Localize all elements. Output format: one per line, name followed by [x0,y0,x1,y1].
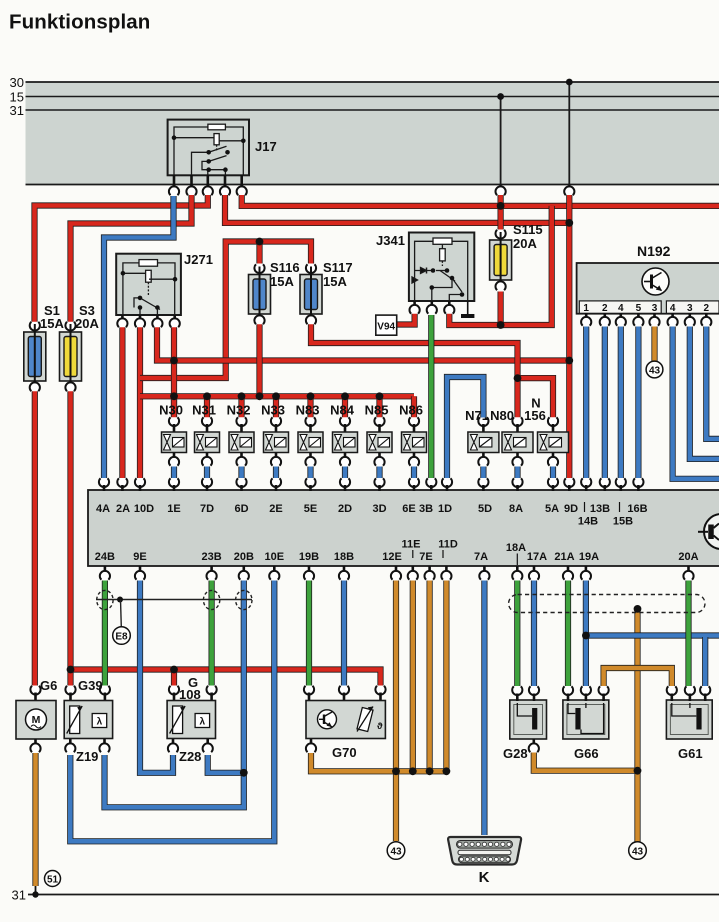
svg-text:15B: 15B [613,516,633,528]
wire orange ECU 11D to sensor ground rail [443,581,449,772]
node on 15-line [497,93,504,100]
svg-text:3B: 3B [419,503,433,515]
wire blue J17.T1 to ECU pin 4A [104,196,174,478]
wire green ECU 18A to G28 [514,581,520,687]
svg-text:G61: G61 [678,746,703,761]
junction: orange rail 11E [409,767,417,775]
svg-text:V94: V94 [377,322,395,333]
svg-text:N30: N30 [159,403,183,418]
sensor G28 [510,700,547,739]
svg-text:2D: 2D [338,503,352,515]
svg-text:13B: 13B [590,503,610,515]
junction: shield drain on screen [634,605,642,613]
wire blue N30 to ECU [171,467,177,479]
wire blue N71 to ECU [480,467,486,479]
injector valve N33 [271,417,281,426]
svg-text:43: 43 [390,847,402,858]
svg-text:λ: λ [97,717,103,728]
bus line 15 [26,96,719,98]
svg-text:J271: J271 [184,252,213,267]
svg-text:S116: S116 [270,260,300,275]
injector valve N85 [374,417,384,426]
junction: orange rail 12E [392,767,400,775]
svg-text:2A: 2A [116,503,130,515]
svg-text:6D: 6D [234,503,248,515]
wire red J271.T3 to 30-rail [157,327,569,361]
junction: bus N83 [307,392,315,400]
node on 30-line [566,79,573,86]
svg-text:G39: G39 [78,678,103,693]
svg-text:M: M [32,714,41,726]
junction: bus N85 [376,392,384,400]
injector valve N86 [409,417,419,426]
wire green ECU 20A to G61 [685,581,691,687]
wire red J17.T5 / 15-rail to right edge [242,195,719,206]
svg-text:N85: N85 [365,403,389,418]
wire blue ECU 17A to G28 [531,581,537,687]
J17 terminal stubs [174,175,242,187]
wire red S116 bottom to injector bus [256,324,262,396]
svg-text:3: 3 [652,303,658,314]
svg-text:N33: N33 [261,403,285,418]
junction: heater rail G108 [170,666,178,674]
wire red J271.T1 to ECU pin 2A [119,327,125,478]
relay J341 [409,233,474,302]
wire blue G61 right to shield bus [702,637,708,686]
svg-text:11E: 11E [402,539,421,551]
wire blue N32 to ECU [238,467,244,479]
svg-text:19B: 19B [299,551,319,563]
ground line 31 [28,894,719,896]
svg-text:43: 43 [632,847,644,858]
ground ref circle 43 (right) [629,842,647,860]
svg-text:18B: 18B [334,551,354,563]
svg-text:E8: E8 [115,632,128,643]
junction: Z28 right / 20B [240,769,248,777]
wire red J17.T4 to 30-rail junction [225,195,569,223]
injector valve N32 [236,417,246,426]
air mass meter G70 [304,686,314,695]
wire red J17.T3 to fuse S1 [35,195,208,326]
N192 pin stubs + sockets [585,313,588,318]
svg-text:N31: N31 [192,403,216,418]
relay J271 [116,254,181,315]
bus line 31 [26,109,719,111]
svg-text:1E: 1E [167,503,180,515]
wire blue ECU 10E to Z19 left [70,581,274,842]
wire orange G6 to terminal 51 [32,753,38,886]
junction: S116 feed [256,238,264,246]
svg-text:12E: 12E [382,551,402,563]
lambda probe G39 with heater Z19 [65,686,75,695]
junction: bus S116 [256,392,264,400]
wire: drop from 15-line to terminal at x=500.6 [500,97,502,187]
junction: 30-rail / J17.T4 [565,219,573,227]
wire red J341.T1 to V94 [397,313,415,325]
wire blue N85 to ECU [376,467,382,479]
wire red S1 bottom to pump G6 [32,389,38,686]
diagnostic connector K [448,837,521,865]
band bottom edge [26,184,719,186]
svg-text:31: 31 [12,888,26,903]
wire red injector supply bus [140,393,414,399]
junction: bus N30 [170,392,178,400]
wire red stub to G108 [171,667,177,686]
svg-text:2: 2 [704,303,710,314]
svg-text:51: 51 [47,875,59,886]
svg-text:5: 5 [636,303,642,314]
ECU internal transistor circle (right edge) [698,514,719,549]
svg-text:7A: 7A [474,551,488,563]
wire orange ECU 7E to sensor ground rail [427,581,433,772]
wire blue Z28 right drop [208,755,244,773]
wire red 15 drop to S115 top [498,195,504,230]
svg-text:G70: G70 [332,745,357,760]
junction: bus N33 [272,392,280,400]
junction: blue shield bus / 19A [582,632,590,640]
wire blue ECU 19A to G66 / shield bus right [583,581,589,687]
junction: bus N84 [341,392,349,400]
bus band 30/15/31 [26,82,719,185]
band terminal sockets x=500.6, 569.3 [496,186,506,195]
junction: orange G28 / shield drain [634,767,642,775]
svg-text:4: 4 [670,303,676,314]
svg-text:N192: N192 [637,243,671,259]
J271 terminal stubs + sockets [121,315,124,320]
fuse S3 20A [65,322,75,331]
svg-text:15A: 15A [40,316,64,331]
svg-text:7E: 7E [419,551,432,563]
wire orange G66/G61 bridge [604,668,672,686]
svg-text:24B: 24B [95,551,115,563]
injector valve N30 [169,417,179,426]
wire red J17.T2 to fuse S3 [71,195,192,326]
svg-text:14B: 14B [578,516,598,528]
control unit N192 [577,263,719,314]
fuel pump G6 [30,686,40,695]
svg-text:N84: N84 [330,403,355,418]
svg-text:1: 1 [583,303,589,314]
junction: N80/N156 feed split [514,374,522,382]
svg-text:ϑ: ϑ [377,721,383,732]
junction: orange rail 11D [443,767,451,775]
wire orange ECU 12E to ground point 43 [393,581,399,842]
svg-text:11D: 11D [438,539,458,551]
junction: J271.T4 / T3 rail [170,357,178,365]
svg-text:N80: N80 [490,408,514,423]
wire blue ECU 1D hook to N71 top [447,377,483,478]
svg-text:K: K [479,869,490,886]
bus line 30 [26,81,719,83]
wire orange G70 sensor ground rail [311,753,446,771]
svg-text:S115: S115 [513,222,543,237]
svg-text:10D: 10D [134,503,154,515]
wire red 30-rail vertical to ECU pin 9D [566,195,572,478]
svg-text:S117: S117 [323,260,353,275]
wire blue N86 to ECU [411,467,417,479]
svg-text:2E: 2E [269,503,282,515]
wire orange N192 pin 3 to ground point 43 [651,327,657,362]
svg-text:20A: 20A [75,316,99,331]
junction: bus N32 [238,392,246,400]
ECU bottom pin stubs + sockets [104,566,107,573]
wire blue N80 to ECU [514,467,520,479]
ground ref circle 43 (left) [387,842,405,860]
svg-text:G66: G66 [574,746,599,761]
svg-text:1D: 1D [438,503,452,515]
svg-text:31: 31 [10,103,24,118]
wire orange G28 ground to 43 [534,753,638,771]
svg-text:3D: 3D [372,503,386,515]
svg-text:30: 30 [10,75,24,90]
wire red S115 bottom to J341.T3 / riser to 15-rail [449,292,500,326]
wires blue N192 pins 1,2,4,5 to ECU 13B,14B,15B,16B [583,327,589,479]
svg-text:156: 156 [524,408,546,423]
wire blue N156 to ECU [550,467,556,479]
wire red S117 bottom to N80/N156 feed [311,324,518,418]
J341 ground lead [467,301,469,314]
svg-text:4A: 4A [96,503,110,515]
ground point E8 [113,627,131,645]
svg-text:Funktionsplan: Funktionsplan [9,11,150,34]
wire red heater supply rail to G70 [71,670,381,686]
ECU top pin sockets [99,478,109,487]
fuse S1 15A [30,322,40,331]
injector valve N31 [202,417,212,426]
wire blue ECU 9E to heater Z28 left [140,581,173,773]
terminal 51 circle [45,871,61,887]
svg-text:19A: 19A [579,551,599,563]
junction: orange rail 7E [426,767,434,775]
wire green J341.T2 to ECU pin 3B [428,315,434,478]
svg-text:16B: 16B [627,503,647,515]
junction: S115 bottom rail [497,321,505,329]
svg-text:Z19: Z19 [76,749,98,764]
svg-text:Z28: Z28 [179,749,201,764]
svg-text:21A: 21A [554,551,574,563]
J341 terminal stubs + sockets [413,301,416,306]
injector top feed stubs red [171,396,177,417]
fuse S115 20A [496,230,506,239]
svg-text:20A: 20A [513,236,537,251]
N192 transistor symbol [642,268,669,295]
wire blue N84 to ECU [342,467,348,479]
svg-text:7D: 7D [200,503,214,515]
wire green ECU 21A to G66 [565,581,571,687]
wire blue N31 to ECU [204,467,210,479]
engine control unit (ECU) box [88,490,719,566]
svg-text:108: 108 [179,687,201,702]
injector valve N156 [548,417,558,426]
wire blue N83 to ECU [307,467,313,479]
svg-text:J17: J17 [255,139,277,154]
fuse S116 15A [254,264,264,273]
wire orange shield drain to 43 [634,609,640,851]
wire blue ECU 20B to Z28 right / Z19 right [105,581,244,808]
wire green ECU 24B to G39 sensor [102,581,108,686]
svg-text:λ: λ [200,717,206,728]
svg-text:J341: J341 [376,233,405,248]
shielded bundle (dashed stadium) [509,595,705,613]
sensor G61 [666,700,712,739]
injector valve N80 [512,417,522,426]
wires blue N192 pins 4,3,2 elbows to right edge [673,327,719,479]
injector valve N83 [305,417,315,426]
N192 pin number strip [579,301,661,313]
wire red J271.T4 to bus / N30 feed [171,327,177,418]
lambda probe G 108 with heater Z28 [169,686,179,695]
svg-text:43: 43 [649,366,661,377]
injector valve N71 [478,417,488,426]
shield screen line with connector rings (lambda leads) [96,599,252,601]
wire red S116 top feed stub [256,242,262,264]
svg-text:15A: 15A [323,274,347,289]
junction: 15-rail at S115 column [497,202,505,210]
wire blue ECU 7A to diagnostic connector K [481,581,487,836]
box V94 [376,315,397,335]
svg-text:9D: 9D [564,503,578,515]
junction: 30-rail / J271.T3 rail [565,357,573,365]
svg-text:G28: G28 [503,746,528,761]
wire: drop from 30-line to terminal at x=569.3 [568,82,570,186]
svg-text:9E: 9E [133,551,146,563]
sensor G66 [563,700,609,739]
wire blue ECU 18B to G70 [341,581,347,686]
junction: heater rail S3 [67,666,75,674]
svg-text:15A: 15A [270,274,294,289]
svg-text:10E: 10E [265,551,285,563]
svg-text:G6: G6 [40,678,57,693]
ground ref circle 43 (N192) [646,361,663,378]
svg-text:8A: 8A [509,503,523,515]
svg-text:18A: 18A [506,542,526,554]
G28/G66/G61 top terminal sockets [512,686,522,695]
junction: bus N31 [203,392,211,400]
svg-text:23B: 23B [202,551,222,563]
svg-text:5E: 5E [304,503,317,515]
relay J17 [168,120,249,176]
svg-text:5D: 5D [478,503,492,515]
fuse S117 15A [306,264,316,273]
svg-text:2: 2 [602,303,608,314]
svg-text:N86: N86 [399,403,423,418]
svg-text:N83: N83 [296,403,320,418]
svg-text:20B: 20B [234,551,254,563]
svg-text:6E: 6E [402,503,415,515]
svg-text:4: 4 [618,303,624,314]
svg-text:3: 3 [687,303,693,314]
wire green ECU 19B to G70 [306,581,312,686]
svg-text:17A: 17A [527,551,547,563]
injector valve N84 [340,417,350,426]
wire orange ECU 11E to sensor ground rail [410,581,416,772]
svg-text:5A: 5A [545,503,559,515]
wire green ECU 23B to G108 sensor [209,581,215,686]
wire red J271.T2 rail: fuses S116/S117 feed, injector bus, pin 10D [137,327,143,478]
J17 terminal sockets [169,186,179,195]
svg-text:20A: 20A [678,551,698,563]
svg-text:N32: N32 [227,403,251,418]
wire blue N33 to ECU [273,467,279,479]
wire red S3 bottom to heater supply rail [67,389,73,686]
